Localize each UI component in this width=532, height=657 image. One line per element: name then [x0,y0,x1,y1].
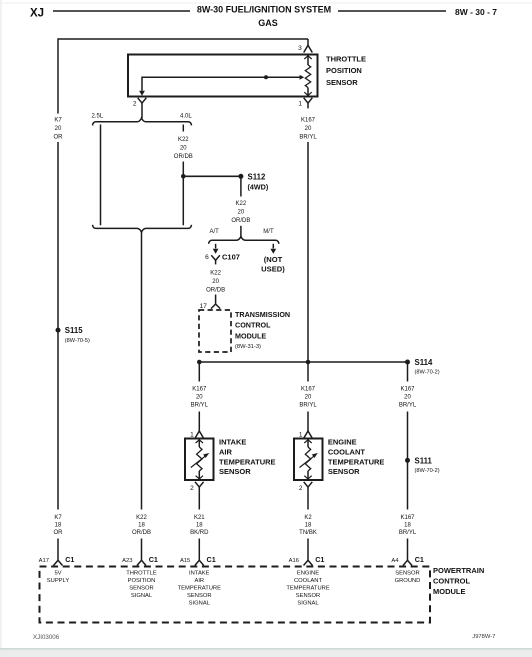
svg-text:18: 18 [138,522,145,528]
wire S111 down [407,460,409,509]
svg-text:2: 2 [299,485,303,492]
svg-text:SIGNAL: SIGNAL [131,593,153,599]
svg-text:MODULE: MODULE [433,587,466,596]
svg-text:CONTROL: CONTROL [433,576,470,585]
intake air temperature sensor box [185,439,214,481]
svg-text:A16: A16 [289,558,299,564]
wire top horizontal 5V supply to TPS pin 3 [58,38,308,40]
TPS wiper tap dot [264,75,268,79]
svg-text:K22: K22 [136,515,147,521]
svg-text:S111: S111 [415,457,433,466]
wire to IAT sensor [198,412,200,432]
powertrain control module box [40,567,431,623]
transmission split brace [209,236,279,243]
IAT resistor bottom arrow [198,471,200,480]
C107 female connector [211,255,220,260]
throttle position sensor box [128,55,318,97]
svg-text:AIR: AIR [194,578,204,584]
engine displacement split brace [93,118,192,125]
svg-text:6: 6 [205,254,209,261]
svg-text:SIGNAL: SIGNAL [189,601,211,607]
wire A23 to PCM [141,539,143,561]
wire bus to ECT upper stub [307,362,309,382]
svg-text:8W - 30 - 7: 8W - 30 - 7 [455,7,497,17]
svg-text:XJI03006: XJI03006 [33,634,60,641]
svg-text:K167: K167 [301,118,316,124]
TPS internal resistor zigzag [305,65,310,88]
svg-text:SENSOR: SENSOR [395,571,419,577]
svg-text:GAS: GAS [258,18,278,28]
svg-text:SENSOR: SENSOR [328,467,360,476]
svg-text:K2: K2 [304,515,312,521]
wire stub to TCM pin 17 [215,295,217,305]
wire S114 to S111 [407,412,409,461]
wire A15 to PCM [198,539,200,561]
svg-text:(8W-70-2): (8W-70-2) [415,468,440,474]
svg-text:S115: S115 [65,326,83,335]
svg-text:8W-30 FUEL/IGNITION SYSTEM: 8W-30 FUEL/IGNITION SYSTEM [197,5,331,15]
transmission control module box [199,310,231,352]
M/T arrow [270,249,276,254]
wire K7 vertical long segment [57,142,59,510]
ECT resistor zigzag [305,447,310,471]
svg-text:C107: C107 [222,253,240,262]
TPS internal resistor bottom arrow [307,88,309,97]
TPS pin 3 wire stub [307,39,309,45]
header rule right [338,10,446,12]
svg-text:OR: OR [54,134,64,140]
wire bus to IAT upper stub [198,362,200,382]
TPS pin 2 connector [138,98,147,103]
svg-text:A/T: A/T [210,229,220,235]
wire K7 vertical upper segment [57,38,59,113]
svg-text:SENSOR: SENSOR [187,593,211,599]
svg-text:ENGINE: ENGINE [297,571,319,577]
svg-text:(8W-70-2): (8W-70-2) [415,370,440,376]
svg-text:K7: K7 [54,515,62,521]
TPS pin 2 male arrow [139,91,145,96]
IAT thermistor arrow [191,456,205,467]
svg-text:USED): USED) [261,265,285,274]
svg-text:BK/RD: BK/RD [190,530,209,536]
svg-text:AIR: AIR [219,448,233,457]
svg-text:20: 20 [196,395,203,401]
svg-text:18: 18 [404,522,411,528]
wire K167 vertical to bus [307,142,309,362]
ECT resistor bottom arrow [307,471,309,480]
svg-text:M/T: M/T [263,229,274,235]
svg-text:4.0L: 4.0L [180,113,192,119]
svg-text:K167: K167 [400,387,415,393]
svg-text:A4: A4 [391,558,399,564]
PCM pin A4 connector [403,560,412,565]
svg-text:TEMPERATURE: TEMPERATURE [286,586,330,592]
wire A/T drop [215,244,217,249]
wire junction to S112 [183,175,241,177]
svg-text:K22: K22 [236,201,247,207]
svg-text:A23: A23 [122,558,132,564]
svg-text:TEMPERATURE: TEMPERATURE [328,457,385,466]
svg-text:OR/DB: OR/DB [174,154,193,160]
wire S114 down stub [407,362,409,382]
svg-text:SUPPLY: SUPPLY [47,578,70,584]
TPS wiper arm wire [142,77,300,91]
svg-text:(8W-31-3): (8W-31-3) [235,344,261,350]
svg-text:(8W-70-5): (8W-70-5) [65,338,90,344]
svg-text:XJ: XJ [30,8,44,20]
wire to ECT sensor [307,412,309,432]
svg-text:OR/DB: OR/DB [132,530,151,536]
svg-text:C1: C1 [149,555,158,564]
svg-text:INTAKE: INTAKE [189,571,210,577]
svg-text:18: 18 [196,522,203,528]
svg-text:A15: A15 [180,558,190,564]
svg-text:C1: C1 [65,555,74,564]
splice S114 [405,360,410,365]
wire A4 to PCM [407,539,409,561]
svg-text:20: 20 [238,209,245,215]
splice S115 [56,328,61,333]
wire M/T drop [272,244,274,249]
svg-text:2: 2 [133,101,137,108]
svg-text:18: 18 [305,522,312,528]
svg-text:BR/YL: BR/YL [191,403,209,409]
faint page edge top [0,2,532,4]
svg-text:A17: A17 [39,558,49,564]
svg-text:K22: K22 [210,271,221,277]
svg-text:INTAKE: INTAKE [219,438,246,447]
svg-text:3: 3 [298,45,302,52]
wire 2.5L branch [100,125,102,226]
svg-text:BR/YL: BR/YL [299,403,317,409]
svg-text:OR: OR [54,530,64,536]
svg-text:SENSOR: SENSOR [219,467,251,476]
svg-text:POWERTRAIN: POWERTRAIN [433,566,484,575]
svg-text:GROUND: GROUND [395,578,421,584]
svg-text:2: 2 [190,485,194,492]
svg-text:SENSOR: SENSOR [296,593,320,599]
svg-text:TN/BK: TN/BK [299,530,317,536]
wire 4.0L branch upper stub [182,125,184,132]
svg-text:17: 17 [200,303,208,310]
TPS wiper arrowhead into resistor [300,75,305,80]
PCM pin A16 connector [304,560,313,565]
svg-text:K7: K7 [54,118,62,124]
header rule left [53,10,190,12]
wire stub to trans split [240,226,242,237]
wire IAT pin 2 down [198,492,200,509]
svg-text:K167: K167 [400,515,415,521]
bottom page strip [0,649,532,657]
faint page edge left [0,0,2,657]
IAT pin 1 connector [195,431,204,438]
svg-text:1: 1 [299,431,303,438]
svg-text:OR/DB: OR/DB [206,288,225,294]
wire 4.0L branch to junction [182,162,184,226]
svg-text:MODULE: MODULE [235,331,266,340]
svg-text:K22: K22 [178,137,189,143]
svg-text:K167: K167 [301,387,316,393]
PCM pin A23 connector [137,560,146,565]
svg-text:SENSOR: SENSOR [129,586,153,592]
svg-text:TRANSMISSION: TRANSMISSION [235,310,290,319]
TPS pin 3 connector [304,45,313,52]
svg-text:OR/DB: OR/DB [231,218,250,224]
svg-text:CONTROL: CONTROL [235,321,271,330]
PCM pin A15 connector [195,560,204,565]
svg-text:SENSOR: SENSOR [326,78,358,87]
ECT resistor top arrow [307,439,309,448]
svg-text:18: 18 [55,522,62,528]
svg-text:COOLANT: COOLANT [294,578,322,584]
svg-text:J978W-7: J978W-7 [472,634,495,640]
svg-text:S114: S114 [415,358,433,367]
IAT pin 2 connector [195,482,204,487]
svg-text:THROTTLE: THROTTLE [326,54,366,63]
svg-text:K21: K21 [194,515,205,521]
svg-text:TEMPERATURE: TEMPERATURE [178,586,222,592]
wire S112 down stub [240,176,242,196]
engine merge brace [93,225,192,232]
svg-text:20: 20 [212,279,219,285]
svg-text:20: 20 [180,145,187,151]
svg-text:ENGINE: ENGINE [328,438,357,447]
engine coolant temperature sensor box [294,439,323,481]
svg-text:(NOT: (NOT [264,255,283,264]
wire TPS pin 2 stub to split [141,108,143,118]
svg-text:2.5L: 2.5L [92,113,104,119]
svg-text:THROTTLE: THROTTLE [126,571,157,577]
svg-text:BR/YL: BR/YL [399,530,417,536]
svg-text:POSITION: POSITION [326,66,362,75]
wire merged K22 long vertical [141,232,143,510]
ECT pin 1 connector [304,431,313,438]
svg-text:TEMPERATURE: TEMPERATURE [219,457,276,466]
svg-text:S112: S112 [248,173,266,182]
splice S112 [238,174,243,179]
TPS internal resistor top arrow [307,55,309,66]
svg-text:(4WD): (4WD) [248,182,269,191]
wire ground bus horizontal [199,361,407,363]
svg-text:20: 20 [55,126,62,132]
svg-text:1: 1 [190,431,194,438]
junction dot 4.0L [181,174,186,179]
svg-text:C1: C1 [207,555,216,564]
TCM pin 17 connector [211,304,220,309]
svg-text:C1: C1 [315,555,324,564]
wire ECT pin 2 down [307,492,309,509]
svg-text:POSITION: POSITION [128,578,156,584]
TPS pin 1 connector [304,98,313,103]
IAT resistor zigzag [197,447,202,471]
svg-text:K167: K167 [192,387,207,393]
svg-text:20: 20 [305,126,312,132]
bus middle junction dot [306,360,311,365]
wire A17 to PCM [57,539,59,561]
ECT pin 2 connector [304,482,313,487]
ECT thermistor arrow [300,456,314,467]
svg-text:5V: 5V [54,571,61,577]
svg-text:BR/YL: BR/YL [399,403,417,409]
svg-text:SIGNAL: SIGNAL [297,601,319,607]
svg-text:COOLANT: COOLANT [328,448,365,457]
svg-text:BR/YL: BR/YL [299,134,317,140]
svg-text:1: 1 [298,101,302,108]
splice S111 [405,458,410,463]
bus left junction dot [197,360,202,365]
wire A16 to PCM [307,539,309,561]
svg-text:20: 20 [305,395,312,401]
svg-text:C1: C1 [415,555,424,564]
IAT resistor top arrow [198,439,200,448]
C107 male arrow [213,249,219,254]
PCM pin A17 connector [54,560,63,565]
svg-text:20: 20 [404,395,411,401]
